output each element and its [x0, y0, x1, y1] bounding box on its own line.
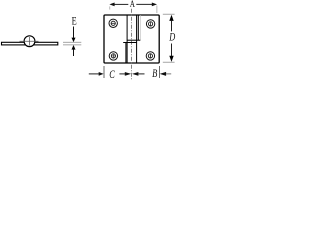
dim C left tail [89, 73, 99, 75]
dim D bottom arrow [171, 44, 173, 57]
dim C/B extension left [103, 66, 105, 78]
faint right leaf line [139, 15, 141, 40]
dim B left tail [138, 73, 144, 75]
svg-text:B: B [152, 68, 157, 80]
dim A ext left [109, 6, 111, 9]
side view leaf bar [2, 42, 58, 45]
hole BR [146, 52, 154, 60]
pin centerline vertical [29, 37, 31, 46]
upper knuckle joint line [127, 39, 140, 41]
dim B right tail [166, 73, 171, 75]
dim A ext right [156, 6, 158, 14]
dim D top arrow [169, 15, 173, 21]
dim D ext top [163, 13, 175, 15]
dim C/B extension right [158, 66, 160, 78]
dim A line right segment [136, 3, 152, 5]
dim E extension lines [63, 41, 81, 43]
dim C right arrow [125, 72, 131, 76]
dim C right tail [119, 73, 125, 75]
upper knuckle right leaf edge [137, 15, 139, 40]
dim E down arrow [73, 27, 75, 38]
svg-text:E: E [72, 14, 77, 28]
lower knuckle joint line [123, 42, 136, 44]
dim E up arrow [72, 45, 76, 50]
plate centerline [130, 9, 132, 80]
barrel left edge [126, 15, 128, 63]
hole BL [109, 52, 117, 60]
barrel circle [24, 36, 35, 47]
barrel right edge [136, 15, 138, 63]
svg-text:A: A [130, 0, 135, 10]
dim B left arrow [132, 72, 138, 76]
hole TR [146, 20, 154, 28]
dim A line left segment [114, 3, 129, 5]
svg-text:C: C [109, 69, 115, 81]
lower knuckle left leaf edge [125, 43, 127, 64]
front view plate [104, 15, 159, 63]
dim D ext bottom [163, 61, 175, 63]
dim A right arrow [152, 3, 157, 7]
dim B right arrow [160, 72, 166, 76]
pin centerline horizontal [20, 40, 39, 42]
hole TL [109, 19, 117, 27]
svg-text:D: D [169, 32, 176, 44]
dim A left arrow [109, 3, 114, 7]
dim C left arrow [99, 72, 104, 76]
